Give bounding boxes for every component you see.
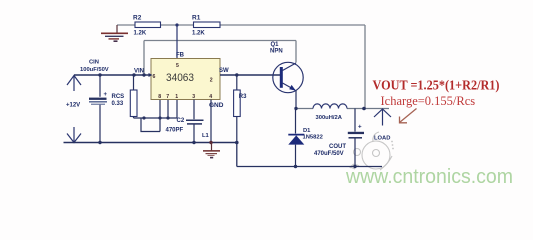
node RCS top (132, 73, 135, 76)
svg-text:VOUT =1.25*(1+R2/R1): VOUT =1.25*(1+R2/R1) (373, 78, 500, 93)
svg-text:1.2K: 1.2K (134, 31, 147, 37)
svg-text:NPN: NPN (270, 48, 283, 54)
svg-text:300uH/2A: 300uH/2A (316, 115, 343, 121)
wire: sense line A y=118 (134, 117, 178, 119)
wire: pin4 GND column (210, 100, 212, 143)
svg-text:7: 7 (166, 94, 169, 100)
resistor R2 (feedback lower) (133, 15, 161, 37)
inductor L1 300uH/2A (313, 104, 347, 121)
svg-text:+: + (358, 123, 362, 130)
wire: pin7 column (167, 100, 169, 119)
svg-text:Q1: Q1 (271, 42, 280, 48)
svg-text:4: 4 (209, 94, 212, 100)
capacitor C2 470PF (timing) (166, 100, 204, 143)
lower ground rail y=166.5 (237, 166, 382, 168)
load port arrow (374, 109, 391, 126)
watermark logo (350, 132, 392, 170)
wire: rail step down x=236.8 (236, 143, 238, 167)
node R3 top (235, 73, 238, 76)
svg-text:2: 2 (210, 78, 213, 84)
svg-text:3: 3 (192, 94, 195, 100)
svg-text:0.33: 0.33 (112, 101, 124, 107)
resistor R3 (base pulldown) (234, 75, 248, 143)
wire: SW wire to base (220, 74, 281, 76)
svg-text:100uF/50V: 100uF/50V (80, 67, 109, 73)
wire: pin8 column (159, 100, 161, 132)
node CIN top (98, 73, 101, 76)
svg-text:LOAD: LOAD (374, 135, 390, 141)
input port +12V (67, 76, 81, 143)
node riser join (142, 73, 145, 76)
transistor Q1 NPN (270, 42, 303, 109)
node dots on rails (98, 141, 101, 144)
svg-text:1N5822: 1N5822 (303, 134, 323, 140)
node switch node (294, 107, 297, 110)
svg-text:C2: C2 (177, 118, 185, 124)
wire: pin1 column (176, 100, 178, 119)
svg-text:8: 8 (158, 94, 161, 100)
svg-text:VIN: VIN (134, 69, 144, 75)
svg-text:470PF: 470PF (166, 127, 184, 133)
svg-text:RCS: RCS (112, 94, 125, 100)
wire: VIN wire y=75 (74, 74, 151, 76)
node FB junction dot (175, 23, 178, 26)
svg-text:470uF/50V: 470uF/50V (314, 151, 344, 157)
svg-text:SW: SW (219, 68, 229, 74)
wire: top feedback rail y=25 (117, 24, 365, 26)
wire: Vin top rail y=40.5 (144, 40, 296, 42)
wire: loop below pins 7/8 (141, 118, 160, 132)
wire: riser from VIN node to top rail (143, 41, 145, 76)
svg-text:D1: D1 (303, 128, 311, 134)
capacitor CIN 100uF/50V (80, 60, 109, 143)
svg-text:www.cntronics.com: www.cntronics.com (345, 165, 513, 188)
svg-text:1.2K: 1.2K (192, 31, 205, 37)
svg-text:CIN: CIN (89, 60, 99, 66)
resistor RCS 0.33 (current sense) (112, 75, 138, 118)
ground (top left, feedback divider) (101, 25, 128, 41)
svg-text:COUT: COUT (329, 144, 346, 150)
node dots on line A (142, 116, 145, 119)
wire: coil to output node (347, 108, 389, 110)
svg-text:+12V: +12V (66, 103, 80, 109)
svg-text:R3: R3 (239, 94, 247, 100)
wire: FB junction down to pin5 (176, 25, 178, 59)
svg-text:5: 5 (176, 63, 179, 69)
ground (bottom centre) (203, 143, 220, 158)
wire: right riser x=365 (VOUT rail) (364, 25, 366, 109)
op IC U1 34063 (134, 53, 229, 109)
wire: collector drop x=296 (295, 41, 297, 63)
svg-text:6: 6 (153, 74, 156, 80)
resistor R1 (feedback upper) (192, 15, 220, 37)
node output (362, 107, 366, 111)
svg-text:+: + (104, 92, 108, 98)
capacitor COUT 470uF/50V (314, 109, 364, 167)
wire: switch node to coil (296, 108, 313, 110)
svg-text:L1: L1 (202, 133, 210, 139)
svg-text:R1: R1 (192, 15, 201, 22)
svg-text:R2: R2 (133, 15, 142, 22)
bottom ground rail y=142.5 (64, 142, 237, 144)
diode D1 1N5822 (288, 109, 323, 167)
annotation red arrow (400, 109, 417, 123)
svg-text:FB: FB (176, 53, 185, 59)
svg-text:34063: 34063 (166, 72, 194, 84)
svg-text:1: 1 (175, 94, 178, 100)
svg-text:Icharge=0.155/Rcs: Icharge=0.155/Rcs (381, 94, 476, 108)
